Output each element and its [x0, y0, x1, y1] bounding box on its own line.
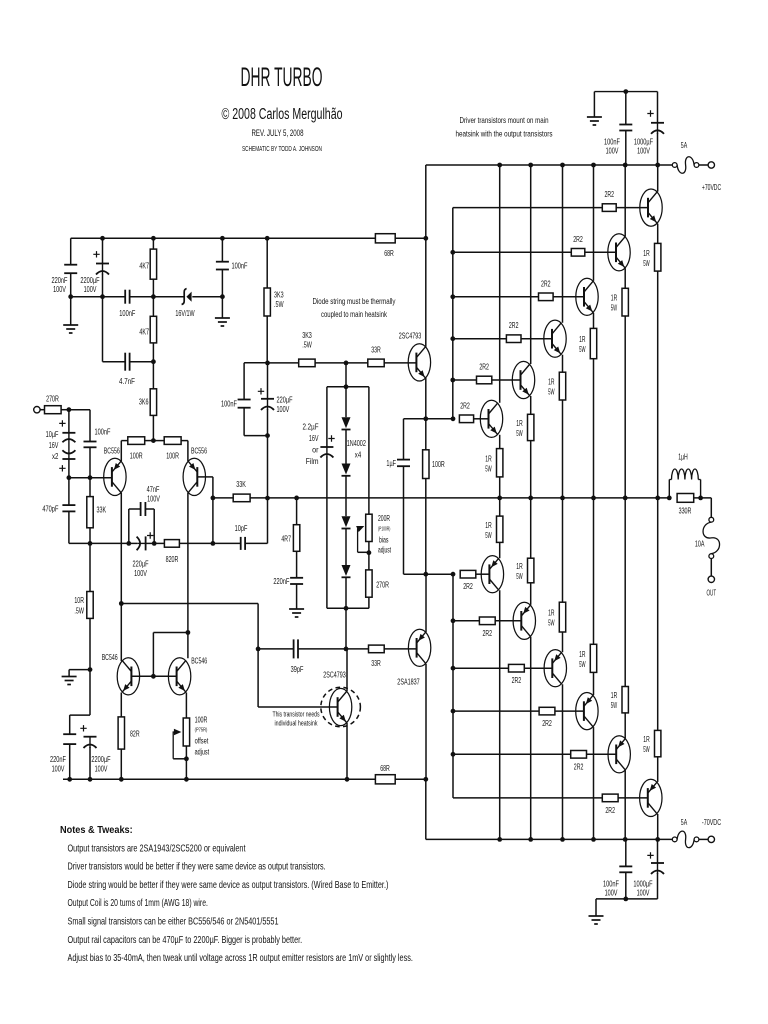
wire wiper tie 100R: [173, 758, 186, 760]
transistor 2SC5200 output T5: [512, 361, 534, 398]
wire 1R to T3p emitter: [593, 672, 595, 695]
wire 1uF branch top: [403, 419, 405, 460]
wire fuse to -70 terminal: [699, 838, 708, 840]
resistor 2R2 T2 base: [571, 249, 585, 257]
junction VAS collector node: [344, 647, 349, 652]
svg-text:200R: 200R: [378, 514, 390, 523]
ground main: [62, 676, 77, 678]
svg-text:This transistor needs: This transistor needs: [273, 710, 320, 719]
wire top positive rail: [71, 237, 376, 239]
transistor BC556 Q2 diff pair right: [183, 458, 205, 495]
capacitor 1uF driver bias: [397, 459, 410, 461]
svg-text:1R: 1R: [643, 734, 649, 744]
resistor 33R lower driver base: [369, 645, 385, 653]
svg-text:Notes & Tweaks:: Notes & Tweaks:: [60, 825, 133, 836]
svg-text:1R: 1R: [485, 453, 491, 463]
wire 220nF top lead: [70, 238, 72, 264]
wire 2R2 to T3 base: [553, 296, 584, 298]
svg-text:2R2: 2R2: [483, 628, 493, 638]
transistor 2SC5200 output T1: [640, 189, 662, 226]
resistor 2R2 T1p base: [602, 794, 618, 802]
wire 4.7nF node to 3K6: [152, 362, 154, 389]
wire +70VDC rail: [426, 164, 675, 166]
wire T2p collector to -rail: [624, 770, 626, 839]
wire 4K7 upper bottom lead: [152, 279, 154, 297]
capacitor 10uF 16V x2 back-to-back polarized: [59, 420, 65, 426]
capacitor 100nF input: [84, 441, 97, 443]
inductor 1uH output coil: [668, 480, 670, 498]
resistor 2R2 T5 base: [477, 376, 492, 384]
svg-text:5A: 5A: [681, 817, 688, 827]
wire PNP base row T3p: [453, 710, 539, 712]
wire 470pF top lead: [68, 478, 70, 505]
wire VAS collector riser: [346, 649, 348, 691]
wire 270R to input node: [61, 409, 69, 411]
wire 33R to 2SC4793 base: [384, 362, 416, 364]
capacitor 220nF bottom-left: [63, 733, 76, 735]
wire 47nF riser left: [128, 509, 130, 543]
junction NPN base bus bottom: [451, 416, 456, 421]
resistor 2R2 T3 base: [539, 293, 554, 301]
wire 4.7nF branch horizontal left: [103, 361, 126, 363]
svg-text:100V: 100V: [84, 284, 97, 294]
resistor 33K input bias: [87, 497, 93, 528]
junction shunt / 47nF left: [126, 541, 131, 546]
resistor 2R2 T2p base: [571, 751, 587, 759]
wire 68R to driver collector riser: [395, 237, 425, 239]
wire zero-volt segment B: [130, 296, 154, 298]
resistor 1R 5W T3: [590, 328, 596, 358]
wire 2200uF bottom to zero-volt wire: [102, 274, 104, 297]
wire T4 emitter to 1R: [562, 355, 564, 373]
wire diode string segment a: [345, 387, 347, 417]
junction rail / 100nF: [220, 236, 225, 241]
svg-text:100V: 100V: [134, 568, 147, 578]
junction Q2 collector / base tie: [186, 630, 191, 635]
wire 4R7 top lead: [296, 498, 298, 525]
svg-text:coupled to main heatsink: coupled to main heatsink: [321, 309, 387, 319]
wire NPN base row T4: [453, 338, 507, 340]
svg-text:© 2008 Carlos Mergulhão: © 2008 Carlos Mergulhão: [222, 106, 343, 123]
transistor 2SC4793 upper driver: [408, 344, 430, 381]
wire Q2 emitter riser: [187, 441, 189, 461]
svg-text:1R: 1R: [579, 649, 585, 659]
svg-text:2R2: 2R2: [479, 362, 489, 372]
wire shunt segment b: [90, 542, 129, 544]
resistor 820R feedback: [164, 540, 179, 548]
wire zener node to zener: [153, 296, 184, 298]
junction PNP base bus row T3p: [451, 709, 456, 714]
svg-text:16V: 16V: [49, 440, 59, 450]
wire 1uF corner to PNP emitter node: [404, 573, 426, 575]
svg-text:BC546: BC546: [191, 656, 207, 666]
svg-text:1R: 1R: [643, 248, 649, 258]
junction zener node: [151, 294, 156, 299]
wire 10R to ground node: [89, 618, 91, 669]
resistor 2R2 T4p base: [509, 664, 525, 672]
svg-text:3K6: 3K6: [139, 397, 149, 407]
svg-text:bias: bias: [379, 536, 389, 545]
svg-text:Driver transistors would be be: Driver transistors would be better if th…: [68, 862, 326, 873]
wire 68R bottom to collector riser: [395, 778, 426, 780]
svg-text:5W: 5W: [643, 258, 649, 268]
diode 1N4002 D1: [342, 417, 351, 428]
wire Q2 collector riser: [187, 493, 189, 659]
svg-text:BC556: BC556: [191, 446, 207, 456]
svg-text:1R: 1R: [516, 418, 522, 428]
junction output bus / column 3: [560, 496, 565, 501]
transistor 2SA1943 output T6p: [481, 556, 503, 593]
wire 100R left lead: [121, 440, 128, 442]
transistor 2SA1943 output T1p: [640, 779, 662, 816]
resistor 330R output damper: [677, 494, 694, 503]
resistor 2R2 T5p base: [479, 617, 495, 625]
wire Q3 collector riser: [120, 604, 122, 662]
svg-text:1R: 1R: [485, 520, 491, 530]
junction zener return: [220, 294, 225, 299]
svg-text:.5W: .5W: [274, 299, 284, 309]
wire 2200uF top lead: [102, 238, 104, 263]
transistor BC546 Q4 mirror right: [168, 658, 190, 695]
diode 1N4002 D2: [342, 464, 351, 475]
svg-text:SCHEMATIC BY TODD A. JOHNSON: SCHEMATIC BY TODD A. JOHNSON: [242, 146, 322, 153]
wire 2SA1837 collector riser: [425, 664, 427, 779]
junction bootstrap node A: [265, 361, 270, 366]
transistor 2SC4793 VAS with heatsink: [329, 688, 351, 725]
wire 3K3 vertical bottom lead: [266, 316, 268, 363]
wire diode string segment b: [345, 430, 347, 464]
svg-text:5W: 5W: [611, 700, 617, 710]
svg-text:82R: 82R: [130, 729, 140, 739]
wire 220uF bottom lead: [267, 409, 269, 436]
wire T2 emitter to 1R: [624, 268, 626, 288]
wire 2R2 to T1p base: [618, 797, 648, 799]
junction rail / 4K7: [151, 236, 156, 241]
svg-text:100nF: 100nF: [221, 399, 237, 409]
junction feedback node / lead cap: [211, 541, 216, 546]
junction base bus row T2: [450, 250, 455, 255]
wire 10pF to riser: [245, 542, 267, 544]
junction base wire / 33K: [88, 475, 93, 480]
wire 100nF input to base wire: [89, 447, 91, 477]
capacitor 220nF zobel: [290, 577, 303, 579]
wire fuse to +70 terminal: [699, 164, 708, 166]
wire 220nF zobel to ground: [296, 584, 298, 609]
wire NPN base row T2: [453, 251, 572, 253]
wire 2.2uF to box bottom: [326, 457, 328, 609]
terminal -70VDC: [708, 836, 714, 842]
wire output bus main: [250, 497, 669, 499]
resistor 1R 5W T2: [622, 288, 628, 316]
svg-text:100R: 100R: [166, 451, 179, 461]
wire zener to 100nF right: [192, 296, 222, 298]
junction -rail / column 2: [528, 837, 533, 842]
svg-text:10µF: 10µF: [46, 429, 59, 439]
junction wiper tie: [367, 550, 372, 555]
capacitor 100nF top-right of filter: [216, 261, 229, 263]
svg-text:Output rail capacitors can be: Output rail capacitors can be 470µF to 2…: [68, 935, 303, 946]
wire PNP base row T2p: [453, 753, 571, 755]
svg-text:Film: Film: [306, 456, 319, 466]
wire T4p collector to -rail: [562, 684, 564, 839]
ground zobel: [289, 608, 304, 610]
wire miller cap left: [258, 648, 294, 650]
wire shunt segment d: [146, 542, 155, 544]
svg-text:.5W: .5W: [302, 340, 312, 350]
wire T3 emitter to 1R: [593, 313, 595, 329]
svg-text:220nF: 220nF: [50, 754, 66, 764]
svg-text:heatsink with the output trans: heatsink with the output transistors: [456, 129, 553, 139]
wire diode string segment e: [345, 577, 347, 608]
wire T5 emitter to 1R: [530, 396, 532, 414]
wire VAS collector to 33R lower: [346, 648, 369, 650]
junction coil right node: [698, 496, 703, 501]
svg-text:DHR TURBO: DHR TURBO: [241, 62, 323, 92]
capacitor 100nF +rail: [619, 124, 632, 126]
junction mirror base node: [151, 674, 156, 679]
svg-text:100V: 100V: [277, 404, 290, 414]
svg-text:220nF: 220nF: [273, 576, 289, 586]
wire diode string segment d: [345, 529, 347, 566]
svg-text:2R2: 2R2: [605, 805, 615, 815]
wire bus to output corner: [694, 497, 712, 499]
potentiometer wiper arrow 100R: [173, 732, 177, 759]
resistor 33K feedback: [233, 494, 250, 502]
wire 2200uF bottom to rail: [89, 747, 91, 779]
wire zero-volt segment A: [71, 296, 126, 298]
svg-text:47nF: 47nF: [147, 484, 160, 494]
junction +rail / column 5: [623, 163, 628, 168]
wire ground jog: [69, 669, 90, 671]
capacitor 1000uF +rail polarized: [657, 123, 659, 134]
ground below 100nF filter: [215, 317, 230, 319]
svg-text:2R2: 2R2: [574, 761, 584, 771]
wire NPN base bus: [452, 208, 454, 419]
wire VAS base wire: [258, 706, 338, 708]
wire T5p collector to -rail: [530, 637, 532, 840]
resistor 3K6: [150, 389, 156, 416]
wire 1R to T5p emitter: [530, 583, 532, 605]
junction 4.7nF node: [151, 359, 156, 364]
svg-text:100nF: 100nF: [119, 308, 135, 318]
svg-text:BC556: BC556: [104, 446, 120, 456]
resistor 4R7 zobel: [293, 525, 299, 552]
svg-text:220µF: 220µF: [133, 559, 149, 569]
wire 4.7nF to node: [130, 361, 154, 363]
transistor 2SC5200 output T6: [480, 400, 502, 437]
svg-text:2R2: 2R2: [541, 278, 551, 288]
resistor 1R 5W T2p: [622, 687, 628, 713]
wire 100R right lead: [181, 440, 188, 442]
wire input node to 100nF branch: [69, 409, 90, 411]
wire PNP base row T5p: [453, 620, 479, 622]
wire 1R to T1p emitter: [657, 757, 659, 782]
wire column collector T5: [530, 165, 532, 364]
wire 1000uF -rail bottom lead: [657, 873, 659, 899]
capacitor 220uF bootstrap polarized: [267, 399, 269, 410]
wire bootstrap to output line: [267, 436, 269, 499]
wire Q2 base riser down: [212, 477, 214, 544]
transistor 2SA1943 output T2p: [608, 736, 630, 773]
svg-text:820R: 820R: [166, 554, 179, 564]
wire pot to wiper node: [368, 542, 370, 553]
junction -rail / column 4: [591, 837, 596, 842]
capacitor 10pF lead: [240, 537, 242, 550]
wire NPN base row T5: [453, 379, 477, 381]
wire emitter node to base bus: [426, 418, 453, 420]
transistor 2SC5200 output T3: [576, 278, 598, 315]
svg-text:1µF: 1µF: [386, 458, 396, 468]
junction mirror output node: [119, 601, 124, 606]
wire 1R to T6p emitter: [499, 542, 501, 558]
wire 2.2uF branch down: [326, 387, 328, 447]
svg-text:5A: 5A: [681, 140, 688, 150]
capacitor 100nF zener bypass: [124, 290, 126, 304]
svg-text:2.2µF: 2.2µF: [303, 422, 319, 432]
resistor 3K3 .5W horizontal: [299, 359, 315, 367]
svg-text:(P100R): (P100R): [378, 527, 390, 533]
wire bias pot branch down: [368, 387, 370, 514]
wire caps top jog: [70, 714, 90, 716]
wire pot to rail: [185, 746, 187, 779]
svg-text:5W: 5W: [643, 744, 649, 754]
svg-text:1R: 1R: [611, 293, 617, 303]
junction diff pair tail: [151, 438, 156, 443]
svg-text:x2: x2: [52, 451, 59, 461]
junction rail / 2200uF bottom: [88, 777, 93, 782]
svg-text:68R: 68R: [380, 763, 390, 773]
capacitor 100nF -rail: [619, 865, 632, 867]
wire bus to 1R T5p: [530, 498, 532, 558]
svg-text:1R: 1R: [548, 377, 554, 387]
wire zener node to 4K7 lower: [152, 297, 154, 317]
junction output bus / column 6: [655, 496, 660, 501]
junction rail / 220nF bottom: [67, 777, 72, 782]
wire 2R2 to T5 base: [492, 379, 521, 381]
wire 1R T6 to output bus: [499, 477, 501, 498]
svg-text:2R2: 2R2: [463, 581, 473, 591]
svg-text:adjust: adjust: [378, 546, 391, 555]
svg-text:+70VDC: +70VDC: [702, 182, 721, 192]
resistor 1R 5W T6p: [497, 516, 503, 542]
svg-text:2R2: 2R2: [460, 401, 470, 411]
junction -rail / column 3: [560, 837, 565, 842]
wire PNP node to base bus: [426, 573, 453, 575]
potentiometer 200R bias adjust: [366, 514, 372, 541]
fuse 5A positive: [672, 163, 677, 168]
capacitor 220nF top-left: [64, 264, 77, 266]
wire 82R to rail: [120, 749, 122, 779]
wire Q1 emitter riser: [120, 441, 122, 461]
svg-text:100V: 100V: [147, 494, 160, 504]
wire base wire BC556a: [69, 477, 112, 479]
capacitor 470pF: [62, 504, 75, 506]
resistor 270R input: [45, 406, 62, 414]
svg-text:OUT: OUT: [707, 588, 717, 598]
svg-text:Small signal transistors can b: Small signal transistors can be either B…: [68, 917, 279, 928]
wire PNP base row T4p: [453, 667, 509, 669]
svg-text:Adjust bias to 35-40mA, then t: Adjust bias to 35-40mA, then tweak until…: [68, 953, 413, 964]
wire NPN base row T1: [453, 207, 603, 209]
wire shunt segment e: [154, 542, 164, 544]
wire tail to 100R right: [153, 440, 164, 442]
wire 1uF branch bottom: [403, 466, 405, 574]
wire T1 emitter to 1R: [657, 224, 659, 244]
wire T3p collector to -rail: [593, 727, 595, 839]
wire shunt riser 470pF corner: [69, 542, 89, 544]
wire 10uF top lead: [68, 410, 70, 433]
svg-text:Diode string would be better i: Diode string would be better if they wer…: [68, 880, 389, 891]
svg-text:100V: 100V: [95, 764, 108, 774]
svg-text:16V/1W: 16V/1W: [175, 308, 194, 318]
svg-text:x4: x4: [355, 450, 362, 460]
wire 10pF riser to output line: [267, 498, 269, 543]
svg-text:16V: 16V: [309, 433, 319, 443]
svg-text:100V: 100V: [605, 888, 618, 898]
wire bus to 1R T3p: [593, 498, 595, 644]
junction bootstrap merge: [265, 433, 270, 438]
wire column collector T2: [624, 165, 626, 236]
junction output bus / column 4: [591, 496, 596, 501]
svg-text:BC546: BC546: [102, 652, 118, 662]
resistor 68R bottom decoupling: [375, 775, 395, 784]
svg-text:33R: 33R: [371, 658, 381, 668]
wire T1p collector to -rail: [657, 814, 659, 840]
wire Q2 base exit: [197, 476, 213, 478]
transistor 2SC5200 output T4: [544, 320, 566, 357]
svg-text:10R: 10R: [74, 595, 84, 605]
wire 4R7 to 220nF: [296, 551, 298, 578]
svg-text:10pF: 10pF: [235, 523, 248, 533]
junction PNP driver emitter node: [423, 572, 428, 577]
junction ground node: [88, 667, 93, 672]
junction 220nF / zero-volt wire: [68, 294, 73, 299]
terminal +70VDC: [708, 162, 714, 168]
svg-text:5W: 5W: [516, 571, 522, 581]
wire PNP base row T1p: [453, 797, 602, 799]
wire diode box top bar: [327, 386, 369, 388]
svg-text:68R: 68R: [384, 248, 394, 258]
svg-text:5W: 5W: [485, 530, 491, 540]
wire bottom ground stub: [595, 899, 597, 916]
wire 100nF -rail top lead: [625, 839, 627, 866]
svg-text:100V: 100V: [53, 284, 66, 294]
svg-text:4R7: 4R7: [281, 534, 291, 544]
junction diode box bottom: [344, 606, 349, 611]
wire 33R lower to 2SA1837 base: [384, 648, 416, 650]
junction base bus row T4: [450, 336, 455, 341]
transistor 2SA1943 output T4p: [544, 650, 566, 687]
junction +rail / column 6: [655, 163, 660, 168]
wire bootstrap 100nF branch down: [243, 363, 245, 400]
svg-text:5W: 5W: [579, 659, 585, 669]
resistor 1R 5W T5: [528, 414, 534, 440]
svg-text:Diode string must be thermally: Diode string must be thermally: [313, 296, 397, 306]
svg-text:5W: 5W: [579, 344, 585, 354]
wire 2R2 T6p to base: [476, 573, 490, 575]
svg-text:individual heatsink: individual heatsink: [275, 719, 318, 728]
capacitor 100nF bootstrap: [238, 399, 251, 401]
junction +rail / column 1: [497, 163, 502, 168]
wire column collector T4: [562, 165, 564, 323]
svg-text:2R2: 2R2: [542, 718, 552, 728]
wire miller cap right: [298, 648, 346, 650]
junction top bus / 100nF: [623, 89, 628, 94]
junction miller node: [256, 647, 261, 652]
svg-text:220µF: 220µF: [277, 395, 293, 405]
wire 470pF bottom lead: [68, 511, 70, 543]
wire 100nF rail bottom lead: [625, 131, 627, 166]
